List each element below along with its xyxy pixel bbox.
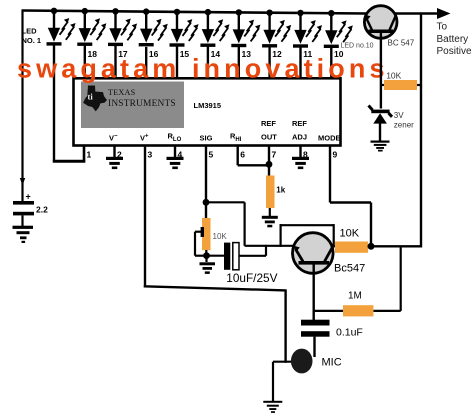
label BC 547 xyxy=(388,39,415,48)
label 10K base xyxy=(386,71,401,81)
node collector junction xyxy=(368,243,375,250)
svg-text:BC 547: BC 547 xyxy=(388,39,415,48)
wire junction to 10uF cap xyxy=(207,255,225,257)
pin number 5 xyxy=(209,150,214,160)
wire collector to 10K xyxy=(331,245,336,247)
pin number 3 xyxy=(148,150,153,160)
LED no.1 xyxy=(47,8,76,162)
pin label RHI xyxy=(230,132,242,144)
pin number 16 xyxy=(149,49,159,59)
pin number 12 xyxy=(272,49,282,59)
LED no.5 (pin15) xyxy=(170,9,199,79)
wire left rail down to 2.2uF capacitor xyxy=(20,10,25,201)
label LED no.10 xyxy=(341,43,374,50)
wire 0.1uF to MIC xyxy=(313,337,315,357)
pin label V- xyxy=(109,134,118,143)
svg-text:1M: 1M xyxy=(348,291,362,302)
capacitor 2.2uF electrolytic xyxy=(13,201,34,226)
pin 7 stub xyxy=(268,146,270,177)
svg-text:OUT: OUT xyxy=(261,133,277,142)
wire V+ horizontal run xyxy=(144,286,286,290)
wire top positive rail xyxy=(22,11,367,14)
svg-text:swagatam innovations: swagatam innovations xyxy=(17,54,389,84)
label 1M xyxy=(348,291,362,302)
svg-text:NO. 1: NO. 1 xyxy=(22,36,42,45)
pin number 8 xyxy=(303,150,308,160)
label LED NO.1 xyxy=(22,27,42,46)
svg-text:LED: LED xyxy=(22,27,38,36)
pin 8 stub xyxy=(299,146,301,158)
svg-text:REF: REF xyxy=(292,119,307,128)
svg-text:+: + xyxy=(26,192,31,202)
pin label REF ADJ xyxy=(292,119,307,142)
ground below MIC xyxy=(263,362,282,413)
pin label MODE xyxy=(318,134,341,143)
wire 10K to right rail xyxy=(417,84,422,86)
svg-text:Bc547: Bc547 xyxy=(334,263,365,275)
pin number 15 xyxy=(180,49,190,59)
pin number 2 xyxy=(117,150,122,160)
svg-text:1k: 1k xyxy=(276,186,285,195)
label To Battery Positive xyxy=(437,22,472,58)
wire branch down to 1M xyxy=(373,246,400,311)
LED no.10 xyxy=(324,10,353,79)
svg-text:6: 6 xyxy=(240,150,245,160)
svg-text:ADJ: ADJ xyxy=(292,133,307,142)
label 10K preset xyxy=(213,232,228,241)
capacitor 0.1uF xyxy=(301,320,330,337)
node preset/cap junction xyxy=(203,252,210,259)
transistor Q2 Bc547 xyxy=(293,233,334,274)
ground below 2.2uF xyxy=(13,226,34,243)
svg-text:zener: zener xyxy=(394,121,414,130)
pin number 17 xyxy=(118,49,128,59)
watermark swagatam innovations xyxy=(17,54,389,84)
label 3V zener xyxy=(394,111,414,130)
pin number 14 xyxy=(211,49,221,59)
LED no.8 (pin12) xyxy=(262,10,291,80)
pin number 18 xyxy=(88,49,98,59)
wire 1M to base node xyxy=(314,310,344,312)
pin 4 stub xyxy=(174,146,176,158)
label INSTRUMENTS xyxy=(108,99,176,109)
LED no.7 (pin13) xyxy=(231,9,260,79)
svg-text:To: To xyxy=(437,22,448,33)
resistor 1k xyxy=(266,176,275,209)
svg-text:Battery: Battery xyxy=(437,34,469,45)
wire Q1 base drop xyxy=(380,32,382,109)
capacitor 10uF/25V xyxy=(224,243,239,270)
pin label RLO xyxy=(168,132,182,144)
wire pin1 to LED no.1 xyxy=(53,160,85,163)
label MIC xyxy=(322,357,342,369)
pin 1 stub xyxy=(83,146,86,163)
svg-text:SIG: SIG xyxy=(200,134,213,143)
svg-text:10K: 10K xyxy=(340,227,360,239)
svg-text:9: 9 xyxy=(333,150,338,160)
wire SIG to transistor base (right, down, right) xyxy=(206,202,294,246)
svg-text:10K: 10K xyxy=(386,71,401,81)
diode zener 3V xyxy=(369,106,393,142)
svg-text:3: 3 xyxy=(148,150,153,160)
label 0.1uF xyxy=(336,327,363,339)
resistor 10K collector xyxy=(335,242,368,253)
svg-text:ti: ti xyxy=(88,92,94,102)
label LM3915 xyxy=(194,101,222,110)
ground at pin 4 xyxy=(167,157,184,169)
wire preset bottom to junction xyxy=(205,250,207,256)
wire base drop to 0.1uF xyxy=(313,263,315,321)
node SIG junction xyxy=(203,199,210,206)
label 1k xyxy=(276,186,285,195)
ground below 1k xyxy=(262,208,278,227)
wire preset wiper bracket xyxy=(195,232,207,256)
label Bc547 xyxy=(334,263,365,275)
svg-text:Positive: Positive xyxy=(437,46,472,57)
pin 9 stub and wire to collector node xyxy=(330,146,371,247)
label TEXAS xyxy=(108,88,136,97)
label 2.2 value xyxy=(36,205,48,215)
svg-text:LED no.10: LED no.10 xyxy=(341,43,374,50)
ground below zener xyxy=(371,141,390,152)
svg-text:10K: 10K xyxy=(213,232,228,241)
LED no.6 (pin14) xyxy=(200,9,229,79)
svg-text:2.2: 2.2 xyxy=(36,205,48,215)
pin number 4 xyxy=(178,150,183,160)
ground at pin 2 xyxy=(106,157,123,169)
wire base loop over Q2 to collector node xyxy=(280,224,335,247)
svg-text:LM3915: LM3915 xyxy=(194,101,222,110)
label 10uF/25V xyxy=(226,271,277,285)
pin 2 stub xyxy=(113,146,115,158)
wire right rail xyxy=(420,14,422,248)
label 10K collector xyxy=(340,227,360,239)
svg-text:MIC: MIC xyxy=(322,357,342,369)
pin number 1 xyxy=(87,150,92,160)
LED no.4 (pin16) xyxy=(139,8,168,79)
transistor Q1 BC 547 xyxy=(364,6,397,39)
node REF OUT junction xyxy=(266,161,273,168)
svg-text:5: 5 xyxy=(209,150,214,160)
svg-text:REF: REF xyxy=(261,119,276,128)
pin number 6 xyxy=(240,150,245,160)
microphone MIC xyxy=(291,349,313,374)
wire MIC left to ground xyxy=(273,361,291,363)
wire 10K to right rail xyxy=(368,245,422,247)
pin number 11 xyxy=(303,49,312,59)
svg-text:3V: 3V xyxy=(394,111,404,120)
op-amp U1 LM3915 IC body xyxy=(74,78,341,145)
wire V+ drop to MIC node xyxy=(284,289,286,362)
svg-text:MODE: MODE xyxy=(318,134,341,143)
svg-text:7: 7 xyxy=(272,150,277,160)
label + polarity xyxy=(26,192,31,202)
svg-text:INSTRUMENTS: INSTRUMENTS xyxy=(108,99,176,109)
resistor 10K base xyxy=(384,80,417,90)
ground at pin 8 xyxy=(292,157,309,169)
Texas Instruments logo box xyxy=(81,82,184,129)
wire cap to base wire xyxy=(239,245,266,256)
pin label REF OUT xyxy=(261,119,277,142)
pin number 9 xyxy=(333,150,338,160)
pin number 7 xyxy=(272,150,277,160)
wire collector to battery arrow xyxy=(395,8,451,19)
pin number 13 xyxy=(242,49,252,59)
ground below preset xyxy=(200,256,216,274)
resistor 1M xyxy=(343,305,373,316)
pin label V+ xyxy=(140,134,149,143)
pin 5 stub and wire to preset xyxy=(205,146,207,219)
pin label SIG xyxy=(200,134,213,143)
svg-text:1: 1 xyxy=(87,150,92,160)
resistor 10K preset xyxy=(201,218,211,250)
svg-text:0.1uF: 0.1uF xyxy=(336,327,363,339)
wire base to 10K xyxy=(381,84,385,86)
pin 3 stub xyxy=(144,146,146,288)
LED no.2 (pin18) xyxy=(77,8,106,79)
LED no.9 (pin11) xyxy=(293,10,322,79)
svg-text:10uF/25V: 10uF/25V xyxy=(226,271,277,285)
pin 6 stub and wire to pin 7 node xyxy=(238,146,269,166)
LED no.3 (pin17) xyxy=(108,8,137,79)
svg-text:TEXAS: TEXAS xyxy=(108,88,136,97)
pin number 10 xyxy=(334,49,344,59)
